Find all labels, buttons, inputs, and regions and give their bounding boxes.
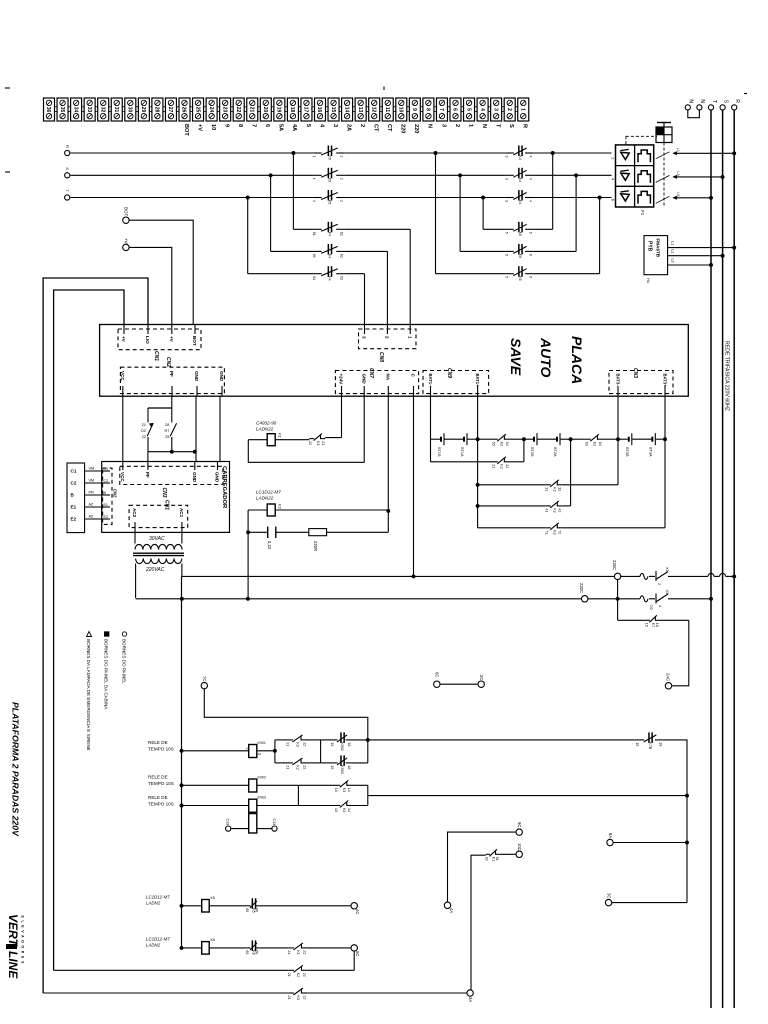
- svg-text:C2: C2: [71, 481, 77, 486]
- svg-text:K4: K4: [518, 178, 522, 182]
- ladder rail: [181, 576, 183, 948]
- svg-text:E2: E2: [104, 515, 108, 519]
- svg-text:+V: +V: [169, 336, 174, 343]
- svg-text:0,22: 0,22: [267, 541, 272, 550]
- timer relay coil K903 and contact: [180, 796, 368, 813]
- contact K7B 15-18: [635, 732, 663, 749]
- svg-text:41: 41: [544, 508, 548, 512]
- relay K1 label: [256, 421, 277, 432]
- svg-text:K903: K903: [340, 765, 344, 773]
- svg-text:17: 17: [303, 107, 309, 113]
- svg-text:21: 21: [248, 107, 254, 113]
- svg-text:R: R: [734, 99, 740, 103]
- contact K6-1: [504, 222, 533, 236]
- svg-text:D2: D2: [141, 429, 146, 433]
- svg-text:B: B: [104, 491, 107, 495]
- svg-text:1: 1: [519, 108, 525, 111]
- wire battery row3: [478, 439, 618, 485]
- svg-text:2: 2: [506, 108, 512, 111]
- svg-text:LADN22: LADN22: [256, 496, 274, 501]
- svg-text:C: C: [411, 374, 416, 378]
- fuse X3: [640, 590, 669, 610]
- svg-text:AZ: AZ: [89, 515, 95, 519]
- charger connector CN1: [129, 500, 188, 532]
- contact K2 41-42: [544, 501, 562, 513]
- svg-text:K6: K6: [518, 254, 522, 258]
- svg-text:CN9: CN9: [446, 368, 452, 378]
- svg-text:C4032-90: C4032-90: [256, 421, 277, 426]
- terminal strip C1 C2 B E1 E2: [67, 463, 85, 533]
- svg-text:GND: GND: [215, 472, 220, 483]
- legend item 1: [122, 632, 127, 684]
- terminal circle phase T: [65, 189, 70, 200]
- svg-text:H1: H1: [646, 278, 651, 284]
- svg-text:TEMPO 10S: TEMPO 10S: [148, 747, 174, 752]
- svg-text:31: 31: [113, 107, 119, 113]
- svg-text:3: 3: [504, 178, 508, 180]
- svg-text:BOT: BOT: [183, 124, 189, 136]
- svg-text:10: 10: [398, 107, 404, 113]
- svg-text:BT3B: BT3B: [625, 447, 629, 457]
- svg-text:C13: C13: [272, 819, 276, 826]
- charger connector CN3: [120, 462, 223, 498]
- wire GND: [195, 396, 197, 461]
- svg-text:BT3A: BT3A: [648, 447, 652, 457]
- svg-text:15: 15: [330, 742, 334, 746]
- svg-text:K903: K903: [258, 796, 266, 800]
- terminal 4A: [444, 902, 454, 913]
- svg-text:K4: K4: [327, 232, 331, 236]
- svg-text:10: 10: [210, 124, 216, 130]
- timer module below K903: [226, 812, 278, 833]
- svg-text:1: 1: [312, 156, 316, 158]
- svg-text:L1: L1: [676, 148, 680, 152]
- transformer secondary leads: [136, 564, 182, 599]
- svg-text:11: 11: [384, 107, 390, 113]
- contact K4-3 on phase T: [504, 190, 533, 204]
- svg-text:220R: 220R: [313, 541, 318, 551]
- wire to CN8 pin 2: [386, 251, 388, 324]
- svg-text:K2: K2: [553, 508, 557, 512]
- svg-text:E1: E1: [104, 503, 108, 507]
- svg-text:30: 30: [127, 107, 133, 113]
- svg-text:1: 1: [312, 178, 316, 180]
- contact K2 71-72: [544, 523, 562, 535]
- svg-text:3: 3: [440, 124, 446, 127]
- terminals 6C 2C: [434, 672, 485, 687]
- svg-text:+V: +V: [124, 238, 129, 244]
- svg-text:42: 42: [558, 508, 562, 512]
- svg-text:K4: K4: [327, 276, 331, 280]
- svg-text:N: N: [688, 99, 694, 103]
- svg-text:61: 61: [495, 857, 499, 861]
- svg-text:7: 7: [438, 108, 444, 111]
- svg-text:S: S: [65, 167, 70, 170]
- wire 220C drop: [616, 580, 620, 621]
- svg-text:K3: K3: [296, 742, 300, 746]
- wire GND 2: [219, 396, 221, 461]
- svg-text:K6: K6: [518, 232, 522, 236]
- board title SAVE: [508, 338, 524, 376]
- svg-text:C1: C1: [104, 467, 109, 471]
- logo VERT LINE ELEVADORES: [6, 914, 25, 979]
- node BAT1+: [476, 396, 480, 441]
- terminal circle phase S: [65, 167, 70, 178]
- wire 220C line2: [136, 597, 713, 601]
- svg-text:R: R: [65, 145, 70, 148]
- svg-text:LIO: LIO: [145, 336, 150, 344]
- terminal 220C line2: [579, 583, 588, 602]
- rung2 output wire: [368, 795, 687, 797]
- svg-text:22: 22: [505, 464, 509, 468]
- PCB board PLACA AUTO SAVE outline: [100, 325, 689, 397]
- svg-text:25: 25: [165, 435, 169, 439]
- terminal 5C: [351, 945, 360, 971]
- svg-text:4A: 4A: [449, 908, 454, 913]
- terminal 8A: [607, 833, 689, 846]
- wire swap right 2: [533, 175, 576, 251]
- svg-text:62: 62: [340, 276, 344, 280]
- svg-text:8A: 8A: [608, 833, 613, 838]
- svg-text:63: 63: [584, 442, 588, 446]
- svg-text:PF: PF: [145, 472, 150, 478]
- wire swap right 3: [533, 198, 600, 274]
- svg-text:CT: CT: [373, 124, 379, 132]
- breaker label F1: [640, 210, 645, 216]
- svg-text:R: R: [522, 124, 528, 128]
- svg-text:GND: GND: [361, 374, 366, 385]
- svg-text:LC1D12-M7: LC1D12-M7: [146, 895, 170, 900]
- svg-text:GND: GND: [192, 472, 197, 483]
- svg-text:K2: K2: [500, 464, 504, 468]
- svg-text:BOT: BOT: [192, 336, 197, 346]
- wire NA: [387, 396, 389, 532]
- svg-text:BORNES DO PAINEL: BORNES DO PAINEL: [122, 639, 127, 684]
- svg-text:L3: L3: [671, 259, 675, 263]
- node swap join 3: [598, 196, 602, 200]
- svg-text:K3: K3: [342, 808, 346, 812]
- svg-text:22: 22: [303, 973, 307, 977]
- transformer T1 30VAC/220VAC: [133, 532, 184, 573]
- wire battery row5: [476, 439, 665, 528]
- svg-text:4A: 4A: [291, 124, 297, 131]
- svg-text:BAT1-: BAT1-: [428, 374, 433, 387]
- svg-text:8: 8: [425, 108, 431, 111]
- svg-text:K902: K902: [258, 776, 266, 780]
- svg-text:33: 33: [86, 107, 92, 113]
- wire tap down 3: [247, 198, 249, 274]
- svg-text:65: 65: [245, 908, 249, 912]
- wire tap row 2: [271, 250, 388, 252]
- svg-text:A2: A2: [258, 752, 262, 756]
- svg-text:L2: L2: [671, 249, 675, 253]
- svg-text:64: 64: [598, 442, 602, 446]
- supply terminals N N T S R: [685, 99, 740, 110]
- svg-text:2: 2: [340, 178, 344, 180]
- svg-text:AZ: AZ: [89, 503, 95, 507]
- svg-text:3C: 3C: [607, 893, 612, 898]
- svg-text:2: 2: [359, 124, 365, 127]
- relay K1 coil: [248, 396, 364, 462]
- svg-text:K901: K901: [258, 741, 266, 745]
- terminal 3A: [467, 990, 473, 1003]
- svg-text:CN8: CN8: [378, 352, 384, 362]
- svg-text:T: T: [494, 124, 500, 128]
- connector CN1: [118, 325, 201, 362]
- svg-text:PF: PF: [169, 371, 174, 377]
- svg-text:66: 66: [255, 908, 259, 912]
- svg-text:K5: K5: [327, 200, 331, 204]
- svg-text:61: 61: [312, 276, 316, 280]
- svg-text:LADN2: LADN2: [146, 943, 161, 948]
- svg-text:CN3: CN3: [632, 368, 638, 378]
- svg-text:18: 18: [655, 623, 659, 627]
- wire swap right 1: [533, 153, 553, 229]
- svg-text:+V: +V: [121, 336, 126, 343]
- svg-text:71: 71: [544, 530, 548, 534]
- svg-text:62: 62: [484, 857, 488, 861]
- svg-text:13: 13: [334, 788, 338, 792]
- contactor coil K5 rung: [180, 896, 351, 913]
- connector CN7: [335, 368, 418, 396]
- svg-text:18: 18: [289, 107, 295, 113]
- svg-text:22: 22: [235, 107, 241, 113]
- battery BT3: [618, 433, 665, 457]
- svg-text:13: 13: [357, 107, 363, 113]
- svg-text:9C: 9C: [517, 822, 522, 827]
- svg-text:27: 27: [167, 107, 173, 113]
- svg-text:20: 20: [262, 107, 268, 113]
- timer relay K902 label: [148, 775, 174, 787]
- contact K7 15-18: [618, 615, 689, 627]
- svg-text:BT1A: BT1A: [460, 447, 464, 457]
- node tap phase S: [269, 173, 273, 177]
- svg-text:5: 5: [504, 232, 508, 234]
- svg-text:220: 220: [413, 124, 419, 133]
- timer relay K903 label: [148, 795, 174, 807]
- rail T: [710, 110, 712, 1008]
- svg-text:TEMPO 10S: TEMPO 10S: [148, 802, 174, 807]
- rung1 output wire: [368, 739, 637, 741]
- svg-text:K2: K2: [500, 442, 504, 446]
- svg-text:5: 5: [465, 108, 471, 111]
- svg-text:BT2B: BT2B: [530, 447, 534, 457]
- svg-text:LADN2: LADN2: [146, 901, 161, 906]
- timer relay coil K902: [180, 776, 336, 806]
- breaker pin labels 2 4 6: [611, 157, 616, 201]
- svg-text:36: 36: [45, 107, 51, 113]
- svg-text:S: S: [508, 124, 514, 128]
- svg-text:4: 4: [658, 605, 662, 607]
- svg-text:65: 65: [245, 950, 249, 954]
- svg-text:54: 54: [505, 442, 509, 446]
- contactor K6 label: [146, 937, 170, 948]
- svg-text:21: 21: [287, 950, 291, 954]
- svg-text:K1: K1: [278, 433, 283, 439]
- wire VCC: [122, 396, 124, 461]
- svg-text:4: 4: [479, 108, 485, 111]
- svg-text:X3: X3: [665, 590, 669, 595]
- svg-text:L1: L1: [671, 241, 675, 245]
- svg-text:2: 2: [454, 124, 460, 127]
- svg-text:A1: A1: [246, 747, 250, 751]
- svg-text:18: 18: [347, 765, 351, 769]
- svg-text:PLACA: PLACA: [569, 336, 585, 384]
- svg-text:VCC: VCC: [120, 371, 125, 381]
- svg-text:4: 4: [529, 200, 533, 202]
- breaker blades and feeds from rails: [656, 148, 736, 204]
- svg-text:K2: K2: [553, 487, 557, 491]
- connector CN8: [359, 325, 417, 363]
- wire inner loop (+V): [54, 290, 124, 970]
- wire to CN8 pin 3: [364, 274, 366, 325]
- svg-text:22: 22: [303, 765, 307, 769]
- svg-text:6: 6: [529, 276, 533, 278]
- contactor coil K6 rung: [180, 938, 351, 955]
- battery BT1: [431, 433, 478, 457]
- contact K2 31-32: [544, 480, 562, 492]
- svg-text:PR: PR: [89, 491, 95, 495]
- svg-text:K2: K2: [296, 765, 300, 769]
- svg-text:K6: K6: [211, 938, 215, 942]
- svg-text:5: 5: [504, 254, 508, 256]
- svg-text:SAVE: SAVE: [508, 338, 524, 376]
- wire swap left 2: [460, 175, 506, 251]
- svg-text:53: 53: [491, 442, 495, 446]
- svg-text:22: 22: [303, 950, 307, 954]
- svg-text:B: B: [71, 493, 75, 498]
- contact K4 aux 1: [312, 222, 344, 236]
- svg-text:220C: 220C: [579, 583, 584, 593]
- svg-text:CN1: CN1: [153, 351, 159, 361]
- svg-text:2: 2: [340, 200, 344, 202]
- svg-text:BAT3-: BAT3-: [615, 374, 620, 387]
- svg-text:PLATAFORMA 2 PARADAS 220V: PLATAFORMA 2 PARADAS 220V: [11, 702, 21, 837]
- svg-text:VM: VM: [89, 479, 95, 483]
- svg-text:6: 6: [529, 232, 533, 234]
- contact K2 63-64: [571, 434, 620, 446]
- svg-text:5A: 5A: [278, 124, 284, 131]
- svg-text:K2: K2: [278, 504, 283, 510]
- svg-text:220: 220: [400, 124, 406, 133]
- wire tap row 1: [293, 228, 410, 230]
- charger block CARREGADOR: [102, 462, 230, 533]
- svg-text:24: 24: [208, 107, 214, 113]
- contactor K2 label: [256, 490, 281, 501]
- svg-text:21: 21: [286, 765, 290, 769]
- wire bottom outer: [43, 992, 467, 994]
- contact K6-3: [504, 266, 533, 280]
- svg-text:AC2: AC2: [132, 508, 137, 518]
- svg-text:12: 12: [370, 107, 376, 113]
- svg-text:BAT1+: BAT1+: [475, 374, 480, 388]
- svg-text:14: 14: [347, 788, 351, 792]
- svg-text:CN2: CN2: [113, 489, 118, 498]
- svg-text:NA: NA: [386, 374, 391, 381]
- connector CN2: [120, 357, 224, 396]
- svg-text:4C: 4C: [355, 909, 360, 914]
- svg-text:GND: GND: [194, 371, 199, 382]
- node swap join 2: [574, 173, 578, 177]
- svg-text:15: 15: [644, 623, 648, 627]
- contact K4-2 on phase S: [504, 168, 533, 182]
- node tap phase T: [246, 196, 250, 200]
- svg-text:L3: L3: [676, 171, 680, 175]
- svg-text:C2: C2: [104, 479, 109, 483]
- svg-text:F1: F1: [640, 210, 645, 216]
- wire BAT3- drop: [617, 396, 619, 439]
- wire battery row2: [431, 439, 524, 462]
- svg-text:CN1: CN1: [164, 500, 170, 510]
- svg-text:REDE TRIFASICA 220V 60HZ: REDE TRIFASICA 220V 60HZ: [724, 341, 730, 411]
- contactor K2 coil: [246, 504, 390, 534]
- timer relay K901 label: [148, 740, 174, 752]
- svg-text:K3: K3: [296, 996, 300, 1000]
- contact K5-2 on phase S: [312, 168, 344, 182]
- svg-text:3: 3: [504, 156, 508, 158]
- svg-text:29: 29: [140, 107, 146, 113]
- wire to CN8 pin 1: [409, 229, 411, 324]
- wire snubber to 220C: [247, 532, 249, 599]
- svg-text:34: 34: [72, 107, 78, 113]
- svg-text:K2: K2: [553, 530, 557, 534]
- svg-text:K4: K4: [327, 254, 331, 258]
- svg-text:8: 8: [237, 124, 243, 127]
- svg-text:D2: D2: [649, 605, 653, 610]
- svg-text:31: 31: [544, 487, 548, 491]
- wire 10C branch: [471, 855, 486, 990]
- wire bottom inner: [54, 969, 355, 971]
- svg-text:23: 23: [221, 107, 227, 113]
- svg-text:2C: 2C: [479, 675, 484, 680]
- wire tap down 1: [292, 153, 294, 229]
- svg-text:7C: 7C: [202, 676, 207, 681]
- svg-text:K2: K2: [593, 442, 597, 446]
- wire C: [412, 396, 416, 578]
- legend item 3: [86, 632, 92, 751]
- svg-text:25: 25: [194, 107, 200, 113]
- svg-text:CN7: CN7: [368, 368, 374, 378]
- svg-text:BOT: BOT: [124, 207, 129, 217]
- terminal 2AC: [665, 673, 671, 689]
- legend item 2: [104, 632, 109, 711]
- operating handle / linkage: [626, 123, 672, 207]
- svg-text:CT: CT: [386, 124, 392, 132]
- svg-text:62: 62: [340, 254, 344, 258]
- wire swap left 3: [436, 153, 506, 274]
- svg-text:13: 13: [334, 808, 338, 812]
- svg-text:22: 22: [142, 435, 146, 439]
- wires VM VM PR AZ AZ: [85, 467, 102, 520]
- svg-text:FMA6TB: FMA6TB: [656, 239, 661, 258]
- svg-text:TEMPO 10S: TEMPO 10S: [148, 781, 174, 786]
- svg-text:E2: E2: [71, 517, 77, 522]
- svg-text:62: 62: [340, 232, 344, 236]
- fuse X1: [640, 567, 669, 585]
- svg-text:N: N: [481, 124, 487, 128]
- svg-text:72: 72: [558, 530, 562, 534]
- contact K2 53-54: [478, 434, 526, 446]
- svg-text:15: 15: [330, 765, 334, 769]
- board title AUTO: [538, 337, 554, 378]
- svg-text:6: 6: [529, 254, 533, 256]
- wire outer loop (LUO): [43, 278, 148, 993]
- svg-text:15: 15: [330, 107, 336, 113]
- svg-text:T: T: [65, 189, 70, 192]
- svg-text:T: T: [711, 100, 717, 103]
- svg-text:4: 4: [529, 178, 533, 180]
- svg-text:RELE DE: RELE DE: [148, 775, 168, 780]
